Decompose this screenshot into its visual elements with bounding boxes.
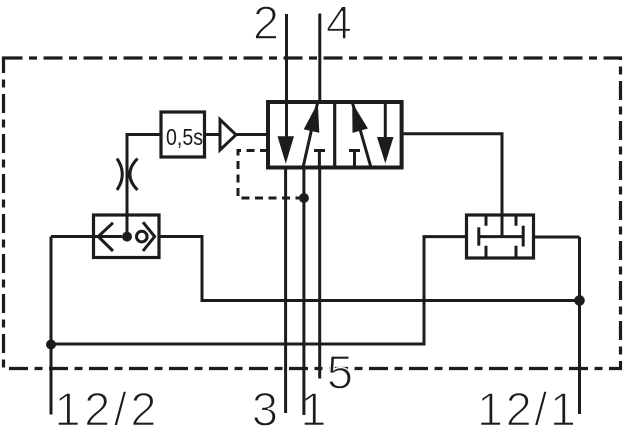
node junction on 12/2 riser: [46, 340, 56, 350]
wire shuttle right port to lower cross run: [159, 237, 580, 301]
valve U1 right position arrow 1 to 2 (up diagonal): [353, 103, 372, 168]
wire lower run to detent supply: [51, 237, 467, 344]
detent element middle bar: [479, 235, 523, 238]
wire detent right port to 12/1 riser: [534, 236, 580, 239]
svg-text:0,5s: 0,5s: [166, 124, 203, 150]
throttle restrictor arcs: [117, 159, 122, 191]
valve U1 right position blocked port 3: [349, 151, 360, 168]
enclosure dashed border: [4, 58, 621, 369]
detent element top ticks: [486, 215, 516, 226]
detent element D1 body: [467, 215, 534, 258]
wire 12/1 riser: [578, 237, 581, 414]
valve U1 5/2-way body: [268, 102, 402, 168]
wire 12/2 riser: [50, 237, 53, 415]
wire amplifier to valve pilot port 12: [236, 133, 268, 136]
shuttle valve SV1 body: [94, 215, 160, 258]
svg-text:3: 3: [252, 383, 278, 436]
wire port 3 line: [284, 168, 287, 414]
shuttle valve right seat chevron: [143, 222, 155, 251]
wire 12/2 input to shuttle left port: [51, 235, 122, 238]
detent element bottom ticks: [486, 246, 516, 258]
valve U1 right position arrow 4 to 5 (down): [384, 102, 387, 140]
valve U1 left position arrow 1 to 4 (up diagonal): [303, 103, 318, 168]
wire port 1 line: [302, 168, 305, 416]
detent element right tee bar: [522, 226, 525, 247]
svg-text:4: 4: [326, 0, 352, 49]
shuttle valve ball: [137, 231, 148, 242]
shuttle valve left seat chevron: [98, 223, 113, 251]
wire valve outlet to detent top: [402, 134, 502, 237]
pilot amplifier triangle: [220, 120, 236, 151]
pilot signal dashed line to valve: [238, 151, 299, 199]
wire port 5 line: [318, 168, 321, 379]
wire port 2 line: [285, 14, 288, 140]
node junction on 12/1 riser: [574, 295, 585, 306]
wire port 4 line: [318, 14, 321, 103]
timer T1 box: [161, 112, 205, 157]
wire timer output to amplifier: [205, 133, 220, 136]
svg-text:12/2: 12/2: [55, 383, 160, 436]
shuttle valve ball seat junction (filled dot): [122, 232, 132, 242]
svg-text:2: 2: [253, 0, 279, 49]
valve U1 left position blocked port 5: [314, 151, 325, 168]
detent element left tee bar: [477, 227, 480, 245]
valve U1 left position arrow 2 to 3 (down): [278, 136, 295, 164]
node pilot junction on port 1 line: [299, 193, 309, 203]
wire shuttle outlet riser to timer input: [127, 135, 161, 237]
valve U1 position divider: [333, 102, 336, 168]
svg-text:5: 5: [327, 346, 353, 399]
svg-text:12/1: 12/1: [477, 383, 578, 436]
